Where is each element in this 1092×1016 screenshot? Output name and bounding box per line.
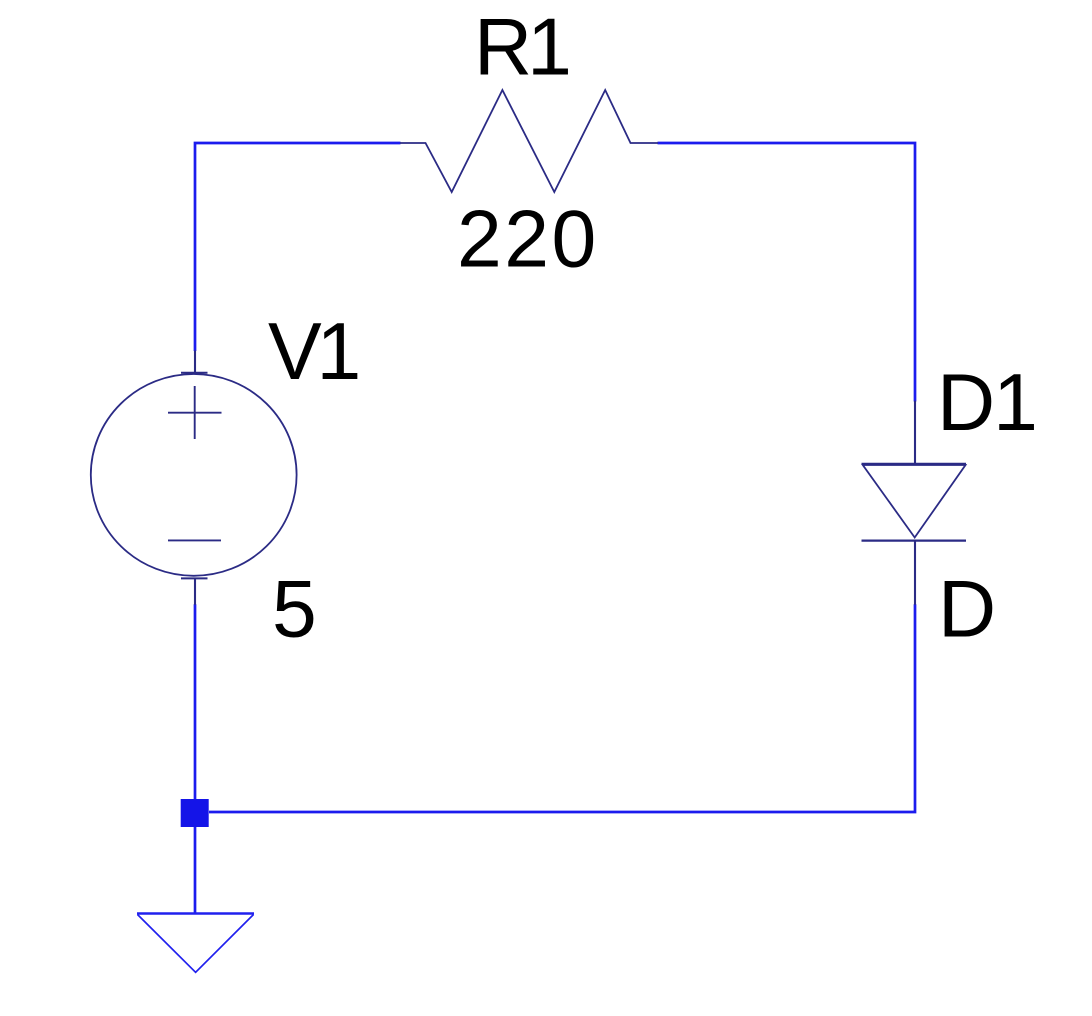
svg-text:V1: V1 xyxy=(268,307,357,397)
svg-text:D: D xyxy=(938,564,996,654)
svg-text:D1: D1 xyxy=(937,358,1036,448)
svg-text:R1: R1 xyxy=(474,3,568,93)
svg-text:5: 5 xyxy=(272,564,317,654)
svg-text:220: 220 xyxy=(457,194,599,284)
